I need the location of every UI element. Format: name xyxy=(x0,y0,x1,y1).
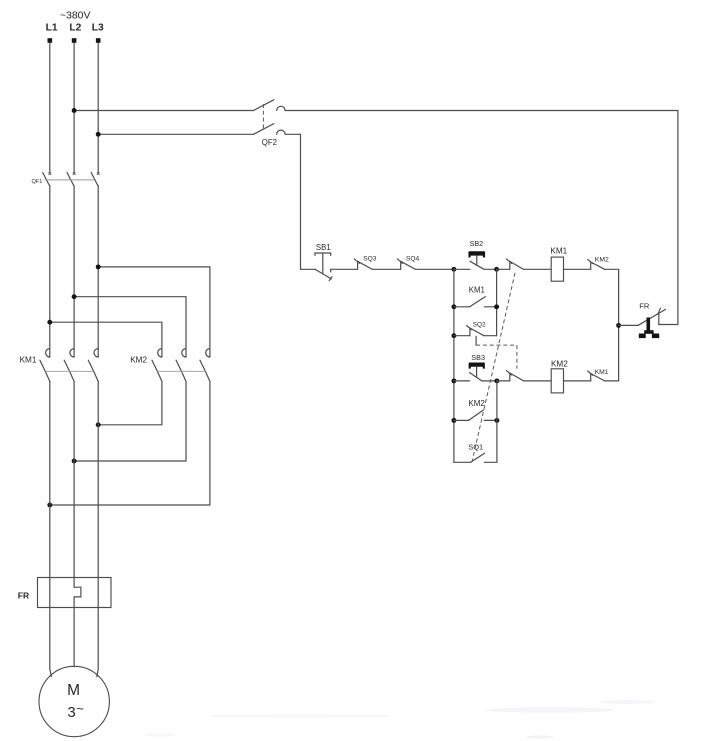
junction row2 left xyxy=(451,304,456,309)
watermark smudge xyxy=(144,700,656,739)
interlock KM1 NC contact label xyxy=(595,369,609,376)
wire L2 QF1 to KM1 xyxy=(73,186,75,358)
auxiliary contact KM1 label xyxy=(469,285,485,294)
limit switch SQ1 NO label xyxy=(468,442,483,451)
wire L3 branch to KM2 pole 3 xyxy=(98,267,210,357)
svg-text:SQ3: SQ3 xyxy=(363,255,377,262)
auxiliary contact KM1 (self hold, NO) xyxy=(454,297,497,307)
contactor KM2 main contacts label xyxy=(130,355,147,364)
svg-text:FR: FR xyxy=(18,591,29,601)
wire L3 KM1 to motor xyxy=(97,381,98,676)
coil KM2 xyxy=(551,369,563,393)
junction KM2p1/L3 xyxy=(96,422,101,427)
limit switch SQ4 label xyxy=(406,255,420,262)
svg-text:KM1: KM1 xyxy=(595,369,609,376)
wire SQ2 NO to coil KM2 xyxy=(524,380,552,382)
wire L1 QF1 to KM1 xyxy=(49,186,51,358)
svg-text:~: ~ xyxy=(76,701,84,716)
junction L3/KM2 branch xyxy=(96,264,101,269)
svg-text:FR: FR xyxy=(639,301,650,310)
button SB1 label xyxy=(316,243,331,252)
contactor KM1 main pole 3 xyxy=(88,349,98,382)
bus node C vertical xyxy=(496,381,498,462)
svg-text:3: 3 xyxy=(67,704,75,721)
wire KM2 pole 2 output to L2 xyxy=(74,381,186,461)
terminal L3 xyxy=(96,38,101,43)
breaker QF1 label xyxy=(32,179,43,185)
contactor KM2 main pole 2 xyxy=(176,349,186,382)
motor M circle xyxy=(39,666,109,736)
breaker QF2 label xyxy=(262,138,277,147)
terminal L2 xyxy=(72,38,77,43)
wire top rail QF2 to right edge xyxy=(285,111,678,325)
svg-text:QF1: QF1 xyxy=(32,179,43,185)
button SB1 (stop, NC) xyxy=(315,253,332,281)
wire SB1 to SQ3 xyxy=(331,268,358,270)
wire SQ4 to node A xyxy=(416,268,454,270)
terminal L1 xyxy=(48,38,53,43)
motor 3~ label xyxy=(67,701,84,721)
svg-text:KM1: KM1 xyxy=(20,355,37,364)
wire node B to SQ1 NC contact xyxy=(497,268,510,270)
node B junction xyxy=(494,267,499,272)
coil KM1 xyxy=(551,257,563,281)
thermal relay FR heater box xyxy=(38,578,112,608)
breaker QF1 pole 1 xyxy=(43,172,52,185)
linkage SQ1 NC to SQ1 NO (dashed) xyxy=(472,273,515,462)
wire node C to SQ2 NO contact xyxy=(497,380,510,382)
wire L1 KM1 to motor xyxy=(50,381,52,676)
auxiliary contact KM2 (self hold, NO) xyxy=(454,410,497,420)
wire coil KM2 to KM1 NC xyxy=(564,380,591,382)
svg-text:KM2: KM2 xyxy=(130,355,147,364)
contactor KM1 main contacts label xyxy=(20,355,37,364)
wire KM2 pole 1 output to L3 xyxy=(98,381,162,424)
svg-text:M: M xyxy=(67,682,80,699)
thermal relay FR trip symbol xyxy=(639,318,659,339)
limit switch SQ4 (NC) xyxy=(397,259,415,270)
contactor KM1 main pole 2 xyxy=(64,349,74,382)
breaker QF1 pole 3 xyxy=(91,172,100,185)
junction KM2p2/L2 xyxy=(72,459,77,464)
limit switch SQ2 NO contact (row 4) xyxy=(507,371,524,381)
junction row3 left xyxy=(451,333,456,338)
svg-text:L2: L2 xyxy=(69,23,81,34)
bus node A vertical xyxy=(453,269,455,462)
junction row5 left xyxy=(451,418,456,423)
button SB2 label xyxy=(470,239,484,248)
wire L3 from terminal to QF1 xyxy=(97,43,99,174)
wire KM1 NC to right node xyxy=(605,380,619,382)
wire L2 from terminal to QF1 xyxy=(73,43,75,174)
junction row4 left xyxy=(451,378,456,383)
svg-text:KM2: KM2 xyxy=(551,359,568,368)
contactor KM2 main pole 3 xyxy=(200,349,210,382)
svg-text:QF2: QF2 xyxy=(262,138,277,147)
breaker QF2 linkage xyxy=(262,104,264,131)
wire L1 from terminal to QF1 xyxy=(49,43,51,174)
wire L2 feed to QF2 pole 1 xyxy=(74,110,253,112)
svg-text:SQ2: SQ2 xyxy=(473,321,486,328)
wire L1 branch to KM2 pole 1 xyxy=(50,322,162,357)
node L2 label xyxy=(69,23,81,34)
svg-text:KM1: KM1 xyxy=(469,285,485,294)
node L1 label xyxy=(46,23,58,34)
limit switch SQ1 NO contact (row 6) xyxy=(454,453,497,462)
svg-text:~380V: ~380V xyxy=(60,10,91,22)
bus node B vertical upper xyxy=(496,269,498,335)
contactor KM2 linkage xyxy=(157,370,205,372)
svg-text:SB2: SB2 xyxy=(470,239,484,248)
wire L2 branch to KM2 pole 2 xyxy=(74,297,186,357)
breaker QF1 linkage xyxy=(45,179,95,181)
junction FR node xyxy=(616,323,621,328)
breaker QF2 pole 1 xyxy=(254,100,286,111)
node L3 label xyxy=(92,23,104,34)
wire SQ3 to SQ4 xyxy=(372,268,400,270)
wire right node vertical xyxy=(618,269,620,381)
svg-text:KM1: KM1 xyxy=(550,247,567,256)
wire L3 QF1 to KM1 xyxy=(97,186,99,358)
wire L2 KM1 to heater xyxy=(73,381,75,587)
svg-text:L3: L3 xyxy=(92,23,104,34)
node A junction xyxy=(451,267,456,272)
button SB3 (start reverse, NO) xyxy=(469,363,485,381)
wire node A to SB2 xyxy=(454,268,470,270)
wire SQ1 NC to coil KM1 xyxy=(524,268,552,270)
interlock KM2 NC contact label xyxy=(595,256,609,263)
wire L2 heater to motor xyxy=(73,597,75,667)
wire L3 feed to QF2 pole 2 xyxy=(98,133,253,135)
svg-text:SB3: SB3 xyxy=(471,353,485,362)
svg-text:SQ4: SQ4 xyxy=(406,255,420,262)
node ~380V supply label xyxy=(60,10,91,22)
junction L2/QF2 feed xyxy=(72,108,77,113)
limit switch SQ1 NC contact (row 1) xyxy=(507,259,524,269)
coil KM2 label xyxy=(551,359,568,368)
junction row2 right xyxy=(494,304,499,309)
button SB3 label xyxy=(471,353,485,362)
breaker QF2 pole 2 xyxy=(254,124,286,135)
wire QF2 pole 2 down to control row xyxy=(285,134,315,269)
junction row5 right xyxy=(494,418,499,423)
svg-text:KM2: KM2 xyxy=(468,399,485,408)
wire KM2 NC to right node xyxy=(605,268,619,270)
motor M label xyxy=(67,682,80,699)
coil KM1 label xyxy=(550,247,567,256)
junction L1/KM2 branch xyxy=(47,320,52,325)
svg-text:L1: L1 xyxy=(46,23,58,34)
auxiliary contact KM2 label xyxy=(468,399,485,408)
wire node A to SB3 xyxy=(454,380,470,382)
wire node to FR contact xyxy=(619,324,639,326)
button SB2 (start forward, NO) xyxy=(468,251,485,269)
heater element FR on L2 xyxy=(74,587,81,597)
junction KM2p3/L1 xyxy=(47,503,52,508)
contactor KM1 linkage xyxy=(45,370,93,372)
svg-text:KM2: KM2 xyxy=(595,256,609,263)
breaker QF1 pole 2 xyxy=(67,172,76,185)
limit switch SQ3 (NC) xyxy=(354,259,372,270)
thermal relay FR NC contact xyxy=(638,308,665,325)
interlock KM2 NC contact xyxy=(588,259,605,269)
thermal relay FR contact label xyxy=(639,301,650,310)
wire SB2 to node B xyxy=(484,268,497,270)
limit switch SQ2 NC contact xyxy=(454,326,497,336)
thermal relay FR label xyxy=(18,591,29,601)
junction L2/KM2 branch xyxy=(72,294,77,299)
wire SB3 to node C xyxy=(482,380,497,382)
node C junction xyxy=(494,378,499,383)
wire coil KM1 to KM2 NC xyxy=(564,268,591,270)
limit switch SQ3 label xyxy=(363,255,377,262)
linkage SQ2 NC to SQ2 NO xyxy=(476,336,517,368)
limit switch SQ2 NC label xyxy=(473,321,486,328)
junction L3/QF2 feed xyxy=(96,132,101,137)
wire KM2 pole 3 output to L1 xyxy=(50,381,210,505)
interlock KM1 NC contact xyxy=(588,371,605,381)
svg-text:SB1: SB1 xyxy=(316,243,331,252)
contactor KM2 main pole 1 xyxy=(152,349,162,382)
contactor KM1 main pole 1 xyxy=(40,349,50,382)
